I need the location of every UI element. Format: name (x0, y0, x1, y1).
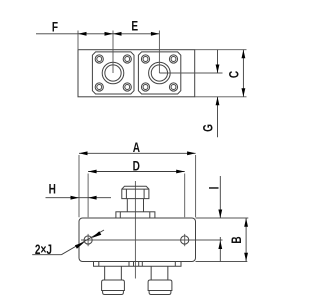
svg-text:F: F (52, 19, 58, 35)
svg-text:I: I (206, 187, 222, 190)
svg-text:2×J: 2×J (35, 241, 52, 257)
svg-text:H: H (49, 181, 56, 197)
svg-text:D: D (133, 158, 140, 174)
svg-text:B: B (228, 236, 244, 243)
svg-text:A: A (133, 139, 140, 155)
svg-text:G: G (200, 124, 216, 132)
svg-text:E: E (131, 18, 138, 34)
svg-text:C: C (226, 71, 242, 78)
